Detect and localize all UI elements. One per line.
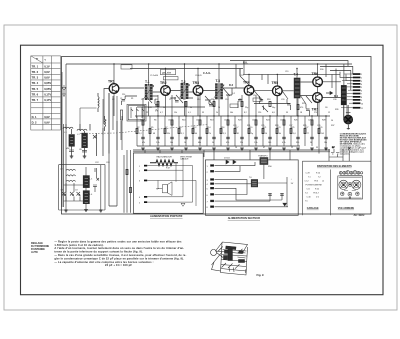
svg-text:— Regler le poste dans la gamm: — Regler le poste dans la gamme des peti… xyxy=(54,239,182,243)
svg-text:C10: C10 xyxy=(197,99,200,101)
svg-text:100: 100 xyxy=(268,142,271,144)
svg-text:0,1: 0,1 xyxy=(188,112,191,114)
svg-text:0,9V: 0,9V xyxy=(44,121,50,125)
transformer T4 driver xyxy=(294,73,301,99)
svg-text:R16: R16 xyxy=(221,127,224,129)
speaker right xyxy=(344,105,353,124)
svg-text:POTENTIOMETRE: POTENTIOMETRE xyxy=(306,185,323,187)
svg-text:TR2: TR2 xyxy=(160,81,167,85)
svg-text:1,2: 1,2 xyxy=(139,133,142,135)
svg-text:7: 7 xyxy=(361,94,362,96)
svg-text:1k5: 1k5 xyxy=(321,133,324,135)
svg-text:3: 3 xyxy=(361,81,362,83)
svg-text:D 2: D 2 xyxy=(316,197,319,199)
svg-text:18: 18 xyxy=(300,112,302,114)
svg-text:R22: R22 xyxy=(302,103,305,105)
transistor TR4 xyxy=(243,81,254,96)
outer frame xyxy=(21,45,384,295)
bold mini labels xyxy=(156,61,339,113)
svg-text:D.1: D.1 xyxy=(334,94,339,98)
svg-text:R 22: R 22 xyxy=(315,189,319,191)
transistor TR2 xyxy=(160,81,170,95)
svg-text:1.500 kc/s (entre 0 et 10 du c: 1.500 kc/s (entre 0 et 10 du cadran). xyxy=(54,243,103,247)
pin connector column xyxy=(341,73,360,108)
svg-text:TR. 2: TR. 2 xyxy=(32,70,39,74)
svg-text:tenne de la partie inferieure: tenne de la partie inferieure du support… xyxy=(54,250,143,254)
svg-text:330: 330 xyxy=(296,142,299,144)
svg-text:D.2: D.2 xyxy=(229,83,234,87)
svg-text:7k: 7k xyxy=(209,133,211,135)
ground osc2 xyxy=(99,210,103,212)
ground ant1 xyxy=(70,156,74,158)
svg-text:68: 68 xyxy=(153,133,155,135)
svg-text:R10: R10 xyxy=(182,120,185,122)
svg-text:L.6: L.6 xyxy=(90,194,93,196)
svg-text:15k: 15k xyxy=(174,112,177,114)
svg-text:TR5: TR5 xyxy=(272,81,279,85)
svg-text:22: 22 xyxy=(291,147,293,149)
svg-text:gler le condensateur ceramique: gler le condensateur ceramique C de 22 p… xyxy=(54,256,184,260)
svg-text:C5 2x450: C5 2x450 xyxy=(150,75,158,77)
svg-text:R13: R13 xyxy=(210,120,213,122)
svg-text:0,17V: 0,17V xyxy=(44,93,51,97)
speaker in panel xyxy=(162,185,167,193)
svg-text:R37: R37 xyxy=(331,125,334,127)
svg-text:AUTO: AUTO xyxy=(31,251,38,254)
panel 2 alimentation secteur xyxy=(205,160,298,215)
svg-text:L.1: L.1 xyxy=(64,132,67,134)
transistor TR7 xyxy=(312,93,323,112)
svg-text:C.A.G.: C.A.G. xyxy=(203,71,211,75)
svg-text:6k: 6k xyxy=(279,133,281,135)
svg-text:0,05: 0,05 xyxy=(148,107,152,109)
svg-text:C30: C30 xyxy=(333,99,336,101)
transistor TR6 xyxy=(312,72,323,87)
svg-text:81: 81 xyxy=(237,133,239,135)
svg-text:D. 1: D. 1 xyxy=(32,115,37,119)
svg-text:TR. 5: TR. 5 xyxy=(32,87,39,91)
svg-text:0,6V: 0,6V xyxy=(44,70,50,74)
transformer panel2 xyxy=(260,158,268,165)
svg-text:11: 11 xyxy=(361,108,363,110)
svg-text:5k: 5k xyxy=(212,142,214,144)
svg-text:1: 1 xyxy=(361,74,362,76)
MAIN CIRCUIT xyxy=(62,61,353,213)
svg-text:0,1V: 0,1V xyxy=(44,64,50,68)
svg-text:33: 33 xyxy=(202,112,204,114)
svg-text:68k: 68k xyxy=(198,142,201,144)
svg-text:mesurees.: mesurees. xyxy=(340,152,351,155)
diagonal wires xyxy=(146,76,312,112)
svg-text:R6: R6 xyxy=(154,120,156,122)
svg-text:1k: 1k xyxy=(163,107,165,109)
svg-text:HAUT-PARLEUR: HAUT-PARLEUR xyxy=(157,155,173,158)
svg-text:D.2: D.2 xyxy=(232,93,235,95)
svg-text:C7: C7 xyxy=(169,99,171,101)
svg-text:2: 2 xyxy=(361,78,362,80)
svg-text:C17: C17 xyxy=(253,95,256,97)
svg-text:0,6V: 0,6V xyxy=(44,76,50,80)
panel2 pins xyxy=(211,165,214,167)
resistors row 2 xyxy=(142,101,313,125)
capacitors row xyxy=(141,137,328,138)
svg-text:22k: 22k xyxy=(240,142,243,144)
svg-text:T.1: T.1 xyxy=(308,177,311,179)
svg-text:R18: R18 xyxy=(267,99,270,101)
dashed tuning line xyxy=(80,125,208,134)
svg-text:0,17V: 0,17V xyxy=(44,98,51,102)
fig 9 sketch xyxy=(211,242,248,275)
svg-text:TR. 6: TR. 6 xyxy=(32,93,39,97)
svg-text:8: 8 xyxy=(361,97,362,99)
transformer T1 xyxy=(144,80,154,100)
svg-text:L.5: L.5 xyxy=(90,179,93,181)
reglage label xyxy=(31,242,49,254)
svg-text:D3 D4: D3 D4 xyxy=(224,158,231,160)
svg-text:C25: C25 xyxy=(261,125,264,127)
svg-text:10k: 10k xyxy=(170,142,173,144)
small capacitors mid stages xyxy=(122,92,333,111)
svg-text:TR7: TR7 xyxy=(312,108,319,112)
svg-text:R5: R5 xyxy=(151,127,153,129)
svg-text:C16: C16 xyxy=(252,120,255,122)
svg-text:5: 5 xyxy=(361,87,362,89)
svg-text:9,1: 9,1 xyxy=(181,133,184,135)
transformer T2 xyxy=(180,80,190,99)
voltage table text xyxy=(32,58,52,125)
svg-text:L2: L2 xyxy=(322,181,324,183)
svg-text:TR 3: TR 3 xyxy=(314,181,318,183)
diodes panel2 xyxy=(226,160,236,164)
svg-text:470: 470 xyxy=(226,142,229,144)
ground left xyxy=(64,210,68,212)
instructions paragraph xyxy=(54,239,186,267)
oscillator coil block xyxy=(59,165,105,210)
transformer T3 xyxy=(214,79,224,99)
svg-text:270: 270 xyxy=(314,112,317,114)
svg-text:R26: R26 xyxy=(294,120,297,122)
svg-text:0,9V: 0,9V xyxy=(44,115,50,119)
svg-text:R24: R24 xyxy=(266,120,269,122)
resistors row xyxy=(136,128,320,133)
svg-text:C3: C3 xyxy=(104,120,106,122)
svg-text:MW: MW xyxy=(66,148,70,150)
wire lower bus 2 xyxy=(62,72,330,207)
svg-text:CV1: CV1 xyxy=(106,162,110,164)
svg-text:R9: R9 xyxy=(179,127,181,129)
svg-text:C8: C8 xyxy=(168,120,170,122)
wire top rail xyxy=(66,61,352,211)
svg-text:10: 10 xyxy=(218,107,220,109)
svg-text:— Dans le cas d'une grande sen: — Dans le cas d'une grande sensibilite t… xyxy=(54,253,186,257)
svg-text:R29: R29 xyxy=(319,127,322,129)
svg-text:10: 10 xyxy=(235,147,237,149)
wires panel1 xyxy=(147,158,196,206)
svg-text:T.5: T.5 xyxy=(305,201,308,203)
svg-text:DISPOSITION DES ELEMENTS: DISPOSITION DES ELEMENTS xyxy=(317,165,352,168)
svg-text:T.1: T.1 xyxy=(145,80,150,84)
svg-text:C1: C1 xyxy=(120,98,122,100)
svg-text:R1: R1 xyxy=(131,98,133,100)
panel 3 frame xyxy=(302,161,371,215)
antenna coil L1 L2 xyxy=(63,124,103,156)
svg-text:5k: 5k xyxy=(190,107,192,109)
svg-text:77: 77 xyxy=(307,133,309,135)
svg-text:C 12: C 12 xyxy=(305,181,309,183)
svg-text:R 14: R 14 xyxy=(316,173,320,175)
svg-text:CV2: CV2 xyxy=(95,162,99,164)
svg-text:R2: R2 xyxy=(137,127,139,129)
ground ant2 xyxy=(83,156,87,158)
svg-text:0,65V: 0,65V xyxy=(44,87,51,91)
svg-text:1,5k: 1,5k xyxy=(254,142,258,144)
svg-text:TRANSFO: TRANSFO xyxy=(258,155,268,158)
transistor TR1 xyxy=(108,80,119,94)
svg-text:4: 4 xyxy=(361,84,362,86)
svg-text:— La capacite d'antenne doit e: — La capacite d'antenne doit etre compri… xyxy=(54,260,153,264)
svg-text:P.U.: P.U. xyxy=(243,61,248,65)
svg-text:R27: R27 xyxy=(305,127,308,129)
svg-text:R35: R35 xyxy=(303,125,306,127)
junction dots bottom bus xyxy=(142,149,326,150)
output transformer T5 xyxy=(341,85,347,105)
svg-text:C19: C19 xyxy=(285,71,288,73)
svg-text:44: 44 xyxy=(195,133,197,135)
svg-text:18k: 18k xyxy=(324,142,327,144)
svg-text:C13: C13 xyxy=(224,120,227,122)
svg-text:Fr: Fr xyxy=(156,109,159,113)
svg-text:TR. 3: TR. 3 xyxy=(32,76,39,80)
svg-text:Pt: Pt xyxy=(36,58,38,61)
svg-text:R12: R12 xyxy=(193,127,196,129)
svg-text:R20: R20 xyxy=(238,120,241,122)
svg-text:R21: R21 xyxy=(263,127,266,129)
arrow down to note xyxy=(347,125,350,129)
svg-text:C 28: C 28 xyxy=(306,173,310,175)
svg-text:R23: R23 xyxy=(277,127,280,129)
ground row xyxy=(141,148,328,150)
svg-text:gat_stw: gat_stw xyxy=(162,70,171,74)
svg-text:8,2: 8,2 xyxy=(244,112,247,114)
svg-text:0,65V: 0,65V xyxy=(44,81,51,85)
svg-text:R39: R39 xyxy=(335,109,338,111)
svg-text:47k: 47k xyxy=(142,142,145,144)
svg-text:R14: R14 xyxy=(207,127,210,129)
svg-text:R33: R33 xyxy=(275,125,278,127)
svg-text:TR 6-7: TR 6-7 xyxy=(313,193,319,195)
svg-text:33k: 33k xyxy=(167,133,170,135)
svg-text:L.2: L.2 xyxy=(77,134,80,136)
svg-text:9: 9 xyxy=(361,100,362,102)
svg-text:220: 220 xyxy=(122,94,125,96)
svg-text:T.3: T.3 xyxy=(216,79,221,83)
svg-text:6: 6 xyxy=(361,90,362,92)
svg-text:AC 4101: AC 4101 xyxy=(353,213,365,217)
svg-text:R11: R11 xyxy=(211,99,214,101)
svg-text:C9 0,05: C9 0,05 xyxy=(195,75,202,77)
svg-text:C18: C18 xyxy=(280,120,283,122)
svg-text:C.V.: C.V. xyxy=(307,189,311,191)
panel2 labels xyxy=(207,155,294,210)
svg-text:ALIMENTATION SECTEUR: ALIMENTATION SECTEUR xyxy=(228,216,260,220)
svg-text:R7: R7 xyxy=(165,127,167,129)
panel1 pins xyxy=(144,165,147,167)
svg-text:470: 470 xyxy=(300,107,303,109)
svg-text:TR6: TR6 xyxy=(312,72,319,76)
svg-text:R25: R25 xyxy=(291,127,294,129)
svg-text:C29: C29 xyxy=(317,125,320,127)
panel1 labels xyxy=(139,155,193,204)
svg-text:C11: C11 xyxy=(196,120,199,122)
pin labels xyxy=(361,74,363,110)
svg-text:56: 56 xyxy=(310,142,312,144)
svg-text:C 40: C 40 xyxy=(307,197,311,199)
svg-text:C4: C4 xyxy=(141,99,143,101)
svg-text:47: 47 xyxy=(263,147,265,149)
svg-text:CABLAGE: CABLAGE xyxy=(307,207,319,210)
svg-text:120: 120 xyxy=(258,112,261,114)
svg-text:5,6: 5,6 xyxy=(293,133,296,135)
svg-text:LW: LW xyxy=(79,149,82,151)
svg-text:C6: C6 xyxy=(140,120,142,122)
osc labels xyxy=(60,132,92,196)
svg-text:TR3: TR3 xyxy=(193,81,200,85)
vue arriere drawing xyxy=(338,171,363,199)
svg-text:R15: R15 xyxy=(239,99,242,101)
svg-text:TR. 4: TR. 4 xyxy=(32,81,39,85)
svg-text:10: 10 xyxy=(361,103,363,105)
svg-text:R19: R19 xyxy=(249,127,252,129)
svg-text:D. 2: D. 2 xyxy=(32,121,37,125)
wire feeds to connector xyxy=(320,67,353,91)
svg-text:TR1: TR1 xyxy=(108,80,115,84)
svg-text:C21: C21 xyxy=(308,120,311,122)
svg-text:C27: C27 xyxy=(289,125,292,127)
svg-text:39: 39 xyxy=(286,112,288,114)
svg-text:C15: C15 xyxy=(240,75,243,77)
svg-text:2,2k: 2,2k xyxy=(156,142,160,144)
svg-text:56k: 56k xyxy=(230,112,233,114)
ground osc xyxy=(84,210,88,212)
wire stubs upper band xyxy=(122,69,310,117)
schematic frame xyxy=(62,57,372,215)
antenna input symbol xyxy=(62,85,66,96)
svg-text:CASQUE: CASQUE xyxy=(180,158,189,161)
top small boxes xyxy=(121,65,261,108)
resistor on left drop xyxy=(126,169,132,192)
svg-text:C14: C14 xyxy=(225,99,228,101)
transistor TR5 xyxy=(272,81,283,96)
svg-text:R30: R30 xyxy=(320,69,323,71)
svg-text:3,3: 3,3 xyxy=(223,133,226,135)
svg-text:TR. 7: TR. 7 xyxy=(32,98,39,102)
svg-text:50: 50 xyxy=(331,120,333,122)
svg-text:R31: R31 xyxy=(247,125,250,127)
svg-text:T.4: T.4 xyxy=(305,193,308,195)
svg-text:4,7: 4,7 xyxy=(160,112,163,114)
svg-text:R8: R8 xyxy=(183,99,185,101)
voltage table xyxy=(31,56,61,130)
small transformer T6 xyxy=(251,180,258,187)
svg-text:C2: C2 xyxy=(112,99,114,101)
svg-text:T.2: T.2 xyxy=(181,80,186,84)
svg-text:4,7k: 4,7k xyxy=(282,142,286,144)
svg-text:33: 33 xyxy=(316,147,318,149)
svg-text:22 pF + C4 = 100 pF: 22 pF + C4 = 100 pF xyxy=(105,263,132,267)
transistor TR3 xyxy=(193,81,203,95)
svg-text:2k: 2k xyxy=(216,112,218,114)
wire stage links xyxy=(104,64,347,124)
svg-text:C23: C23 xyxy=(233,125,236,127)
band filter box xyxy=(127,104,146,121)
scattered component labels xyxy=(95,69,338,164)
svg-text:1k: 1k xyxy=(184,142,186,144)
choke coils xyxy=(80,93,106,135)
battery symbol above panel3 xyxy=(329,147,351,161)
svg-text:R4: R4 xyxy=(155,99,157,101)
svg-text:T.2: T.2 xyxy=(318,177,321,179)
wire left long drops xyxy=(109,93,131,213)
svg-text:ALIMENTATION PORTATIF: ALIMENTATION PORTATIF xyxy=(150,214,183,218)
svg-text:Fig. 9: Fig. 9 xyxy=(257,273,265,277)
wires panel2 xyxy=(215,162,289,207)
panel 1 alimentation portatif xyxy=(133,153,203,213)
wire secondary rails xyxy=(64,104,331,208)
svg-text:12: 12 xyxy=(328,112,330,114)
svg-text:6,8: 6,8 xyxy=(272,112,275,114)
svg-text:R17: R17 xyxy=(235,127,238,129)
svg-text:T.4: T.4 xyxy=(294,73,299,77)
svg-text:14: 14 xyxy=(265,133,267,135)
svg-text:TR. 1: TR. 1 xyxy=(32,64,39,68)
svg-text:A l'aide d'un tournevis, tourn: A l'aide d'un tournevis, tourner lenteme… xyxy=(54,246,184,250)
svg-text:VUE ARRIERE: VUE ARRIERE xyxy=(338,207,355,210)
junction dots xyxy=(113,63,326,116)
wire drops mid band xyxy=(109,93,326,150)
right notice text block xyxy=(340,132,367,155)
cablage text list xyxy=(305,173,325,203)
resistor zigzag xyxy=(150,160,178,166)
svg-text:22: 22 xyxy=(146,112,148,114)
svg-text:C20: C20 xyxy=(281,99,284,101)
svg-text:L.3: L.3 xyxy=(60,169,63,171)
svg-text:R28: R28 xyxy=(322,120,325,122)
